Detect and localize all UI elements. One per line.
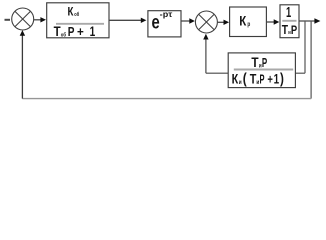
svg-text:+: + (267, 73, 273, 87)
block W5: feedback compensator TиP/(Kи(TиP+1)) (228, 53, 295, 88)
svg-text:Т: Т (282, 22, 288, 37)
svg-text:1: 1 (286, 5, 291, 21)
wire: output line with arrow (299, 18, 320, 24)
svg-text:об: об (74, 11, 79, 18)
svg-text:1: 1 (274, 72, 280, 87)
wire: vertical up into SJ2 with arrow (203, 34, 208, 73)
svg-text:): ) (280, 71, 284, 88)
label: denominator TобP + 1 (54, 24, 96, 39)
svg-text:1: 1 (90, 24, 96, 39)
summing junction SJ2 (comparator circle with X) (195, 11, 217, 33)
wire: inner feedback takeoff vertical (304, 21, 306, 73)
svg-text:-рτ: -рτ (160, 10, 173, 19)
wire: inner feedback horizontal into W5 right side (295, 72, 305, 74)
fraction bar of W5 (234, 69, 293, 71)
block W2: transport delay e^-Pτ (148, 11, 181, 37)
svg-text:р: р (247, 21, 250, 28)
svg-text:Р: Р (291, 23, 297, 37)
svg-text:Р: Р (68, 25, 75, 39)
wire: W3 to integrator W4 (266, 19, 279, 24)
wire: outer feedback left vertical into SJ1 (20, 30, 25, 99)
svg-text:К: К (232, 71, 239, 87)
label: e (152, 12, 160, 33)
wire: outer feedback takeoff vertical (310, 21, 312, 99)
svg-text:(: ( (243, 71, 247, 88)
wire: setpoint input into summing junction SJ1 (5, 19, 11, 21)
block W1: plant Kоб/(TобP+1) (47, 3, 109, 38)
svg-text:Р: Р (262, 56, 267, 70)
fraction bar of W4 (282, 20, 296, 22)
summing junction SJ1 (comparator circle with X) (12, 8, 34, 30)
svg-text:К: К (239, 13, 246, 29)
wire: W1 to delay block W2 (109, 18, 146, 23)
label: numerator Kоб (68, 5, 80, 19)
label: denominator Kи(TиP+1) (232, 71, 284, 88)
wire: outer feedback bottom run (22, 98, 311, 100)
svg-text:е: е (152, 12, 160, 33)
wire: SJ1 to block W1 (34, 17, 46, 22)
svg-text:Р: Р (260, 73, 265, 87)
wire: SJ2 to controller gain W3 (218, 20, 230, 25)
label: Kр (239, 13, 250, 29)
fraction bar of W1 (56, 23, 104, 25)
wire: W5 output to SJ2 feedback horizontal (206, 72, 228, 74)
label: exponent -рτ (160, 10, 173, 19)
label: numerator TиP (251, 55, 267, 70)
block W4: integrator 1/(TиP) (280, 5, 299, 38)
svg-text:и: и (239, 80, 242, 86)
svg-text:К: К (68, 5, 74, 19)
label: denominator TиP (282, 22, 297, 37)
wire: W2 to summing junction SJ2 (181, 18, 195, 23)
block W3: controller gain Kр (230, 7, 267, 37)
label: numerator 1 (286, 5, 291, 21)
svg-text:+: + (77, 25, 84, 39)
svg-text:об: об (61, 31, 67, 38)
